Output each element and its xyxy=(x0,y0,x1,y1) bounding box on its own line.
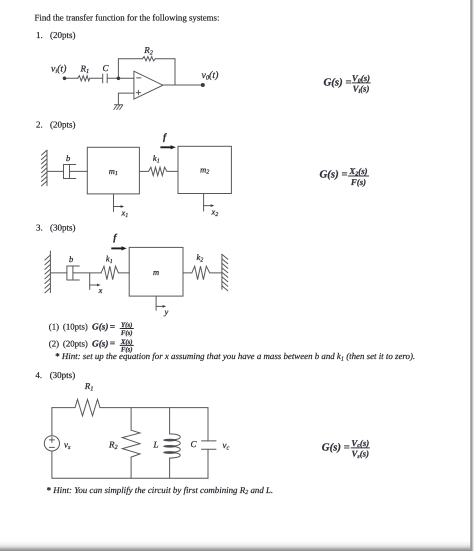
node vi dot xyxy=(63,77,67,81)
spring k2 xyxy=(183,266,222,279)
spring k1 p3 xyxy=(101,266,118,279)
svg-text:G(s): G(s) xyxy=(92,323,109,333)
svg-text:C: C xyxy=(191,439,198,449)
top wire right xyxy=(100,407,208,409)
svg-text:F(s): F(s) xyxy=(121,330,133,337)
damper b p3 xyxy=(66,266,68,280)
svg-text:(20pts): (20pts) xyxy=(50,30,76,40)
svg-text:m: m xyxy=(153,267,159,277)
source vs xyxy=(44,436,59,451)
wire feedback left vertical xyxy=(117,59,119,79)
wire damper to spring k1 xyxy=(73,272,101,274)
x2 arrowhead xyxy=(211,204,215,207)
wall right p3 xyxy=(221,254,223,289)
mass m xyxy=(129,247,183,296)
svg-text:(30pts): (30pts) xyxy=(50,223,76,233)
svg-text:b: b xyxy=(66,153,70,163)
svg-text:vi(t): vi(t) xyxy=(51,64,66,76)
svg-text:y: y xyxy=(164,307,169,317)
y arrowhead xyxy=(163,305,167,308)
svg-text:* Hint: You can simplify the c: * Hint: You can simplify the circuit by … xyxy=(47,485,274,496)
mass m2 xyxy=(178,146,231,193)
wire wall to damper xyxy=(47,170,64,172)
svg-text:* Hint: set up the equation fo: * Hint: set up the equation for x assumi… xyxy=(55,351,415,362)
svg-text:Vs(s): Vs(s) xyxy=(352,449,370,460)
svg-text:(10pts): (10pts) xyxy=(63,322,88,332)
resistor R2 xyxy=(143,57,156,61)
svg-text:G(s) =: G(s) = xyxy=(322,441,350,453)
svg-text:C: C xyxy=(103,63,110,73)
wall left p2 xyxy=(46,151,48,186)
svg-text:x: x xyxy=(98,285,103,295)
wire feedback top right xyxy=(155,58,175,60)
wire damper to m1 xyxy=(70,170,88,172)
wire source bottom xyxy=(51,451,53,478)
svg-text:Y(s): Y(s) xyxy=(121,322,132,329)
wire plus to ground xyxy=(117,93,119,105)
svg-text:4.: 4. xyxy=(35,370,42,380)
capacitor C xyxy=(102,74,104,83)
inductor L branch xyxy=(169,408,171,434)
svg-text:=: = xyxy=(110,339,115,349)
wire source top xyxy=(51,408,53,436)
svg-text:(30pts): (30pts) xyxy=(50,370,75,380)
op-amp U1 xyxy=(134,71,163,99)
subitem 1 xyxy=(49,322,134,337)
resistor R1 p4 xyxy=(75,399,100,416)
svg-text:Vi(s): Vi(s) xyxy=(353,84,370,95)
x2 indicator xyxy=(203,194,205,212)
wire feedback right vertical xyxy=(174,59,176,85)
svg-text:1.: 1. xyxy=(36,30,43,40)
svg-text:F(s): F(s) xyxy=(350,177,366,187)
x indicator p3 xyxy=(89,273,91,290)
force f arrow p3 xyxy=(111,247,122,249)
page bottom edge xyxy=(0,541,474,551)
svg-text:(20pts): (20pts) xyxy=(63,339,88,349)
wire output xyxy=(163,84,203,86)
subitem 2 xyxy=(49,339,134,354)
svg-text:Find the transfer function for: Find the transfer function for the follo… xyxy=(35,13,220,23)
page right edge xyxy=(470,0,472,551)
x arrowhead p3 xyxy=(97,284,101,287)
formula G1 xyxy=(324,73,371,95)
svg-text:(20pts): (20pts) xyxy=(50,120,76,130)
svg-text:G(s): G(s) xyxy=(92,340,109,350)
x1 indicator xyxy=(113,194,115,212)
wire node to op-amp minus xyxy=(118,77,133,79)
svg-text:(2): (2) xyxy=(49,339,59,349)
spring k1 p2 xyxy=(139,167,178,175)
svg-text:=: = xyxy=(110,322,115,332)
wall left p3 xyxy=(49,251,51,293)
wire op-amp plus input xyxy=(118,92,133,94)
svg-text:G(s) =: G(s) = xyxy=(324,77,352,89)
svg-text:G(s) =: G(s) = xyxy=(320,169,348,181)
top wire left xyxy=(52,407,75,409)
wire feedback top left xyxy=(118,58,142,60)
x1 arrowhead xyxy=(121,205,125,208)
force f arrow p2 xyxy=(160,146,171,148)
svg-text:3.: 3. xyxy=(36,223,43,233)
op-amp plus pin mark xyxy=(136,92,140,94)
bottom wire xyxy=(52,477,208,479)
capacitor C branch xyxy=(207,408,209,441)
wire R1 to C xyxy=(90,77,103,79)
formula G4 xyxy=(322,438,370,460)
wire wall to damper p3 xyxy=(50,272,67,274)
svg-text:L: L xyxy=(153,440,159,450)
resistor R2 branch xyxy=(130,408,132,431)
svg-text:X(s): X(s) xyxy=(120,339,133,346)
formula G2 xyxy=(320,166,370,187)
damper b xyxy=(63,165,65,179)
svg-text:(1): (1) xyxy=(49,322,59,332)
op-amp minus pin mark xyxy=(137,77,141,79)
resistor R1 xyxy=(78,76,90,81)
wire C to node xyxy=(107,77,118,79)
svg-text:2.: 2. xyxy=(36,120,43,130)
wire k1 to mass xyxy=(118,272,129,274)
wire vi input xyxy=(66,77,78,79)
node vo dot xyxy=(201,83,205,87)
mass m1 xyxy=(87,147,139,194)
y indicator xyxy=(155,296,157,310)
ground xyxy=(114,104,122,106)
svg-text:v0(t): v0(t) xyxy=(202,70,219,82)
svg-text:b: b xyxy=(69,254,73,264)
node junction dot xyxy=(117,77,121,81)
